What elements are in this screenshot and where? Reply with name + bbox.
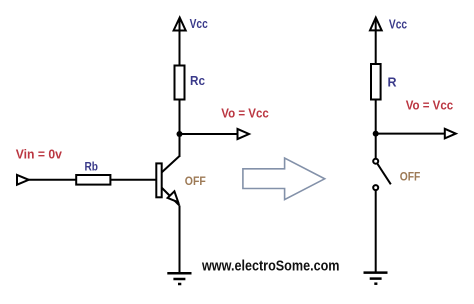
svg-text:Rc: Rc <box>190 74 205 88</box>
svg-text:www.electroSome.com: www.electroSome.com <box>201 258 339 275</box>
svg-text:Vcc: Vcc <box>389 18 407 32</box>
svg-text:OFF: OFF <box>400 170 421 184</box>
svg-text:Vo = Vcc: Vo = Vcc <box>221 107 269 121</box>
svg-text:Rb: Rb <box>85 160 99 174</box>
svg-text:OFF: OFF <box>185 174 206 188</box>
svg-text:Vin = 0v: Vin = 0v <box>16 147 62 161</box>
svg-text:R: R <box>388 75 397 89</box>
svg-text:Vo = Vcc: Vo = Vcc <box>406 99 454 113</box>
svg-text:Vcc: Vcc <box>190 17 208 31</box>
